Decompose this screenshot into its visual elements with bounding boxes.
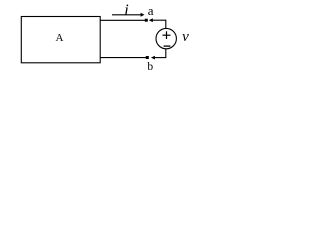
voltage source V [156, 28, 176, 48]
node b [146, 56, 149, 59]
plus sign [163, 34, 171, 36]
network box A [21, 17, 100, 63]
svg-text:A: A [56, 32, 64, 44]
minus sign [164, 45, 171, 47]
svg-text:b: b [147, 61, 153, 73]
svg-text:v: v [182, 29, 189, 45]
svg-text:i: i [124, 2, 128, 19]
wire top from box to node a [100, 19, 145, 21]
source top lead with arrow to node a [149, 18, 153, 22]
svg-text:a: a [148, 3, 154, 18]
source bottom lead with arrow to node b [165, 49, 167, 58]
wire bottom from box to node b [100, 57, 146, 59]
current arrow i [112, 14, 141, 16]
node a [145, 19, 148, 22]
